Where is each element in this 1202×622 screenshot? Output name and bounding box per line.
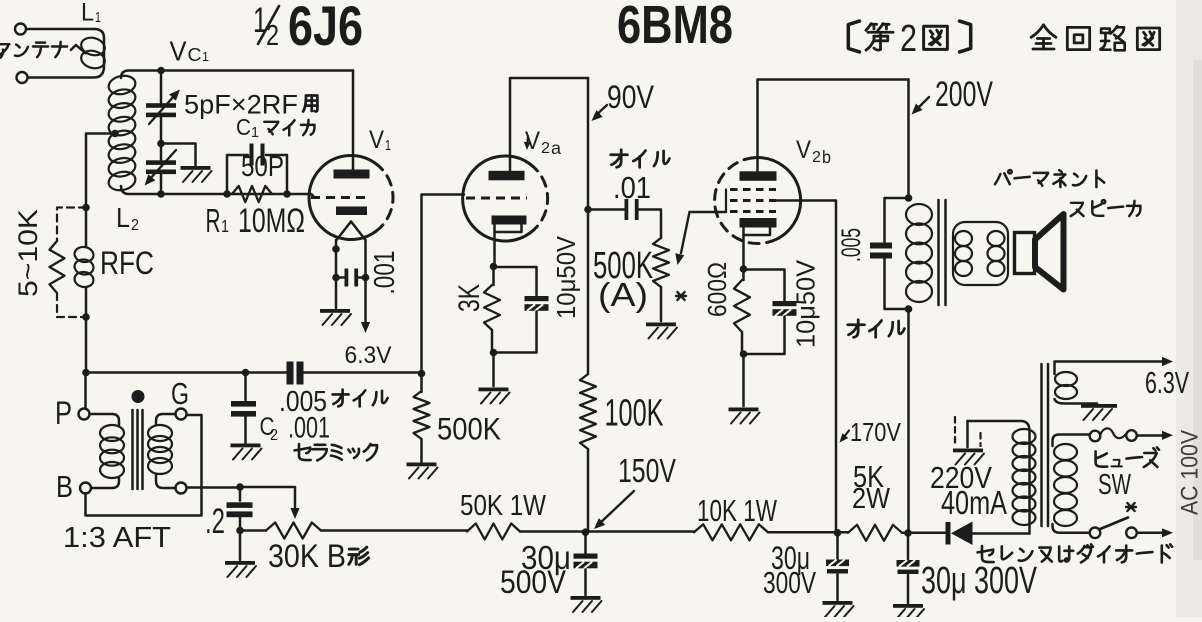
wire L2 tap to RFC [86, 134, 115, 248]
svg-text:L: L [81, 0, 94, 27]
potentiometer 500K(A) [653, 238, 669, 287]
svg-text:500K: 500K [437, 412, 501, 447]
tube V1 envelope [309, 156, 375, 240]
node RFC bottom [82, 313, 90, 321]
ground VC1 mid [181, 166, 211, 170]
svg-text:V: V [170, 36, 188, 67]
node 90V junction [584, 206, 592, 214]
svg-text:6.3V: 6.3V [345, 342, 392, 369]
node 50P left [223, 190, 231, 198]
coil AFT secondary [156, 414, 176, 425]
capacitor 10μ50V (V2b) [744, 270, 785, 301]
ground V2b cathode [729, 408, 759, 412]
svg-text:300V: 300V [763, 566, 816, 600]
ground HV (dashed link) [954, 417, 956, 446]
tube V1 cathode [336, 207, 367, 216]
arrow 30K wiper [240, 487, 295, 507]
ground V1 cathode [320, 309, 350, 313]
coil PT heater 6.3V [1055, 362, 1165, 375]
terminal P [79, 409, 90, 420]
wiper arrow 500K(A) [681, 212, 690, 253]
phasing dot AFT [132, 390, 145, 403]
svg-text:50P: 50P [241, 151, 284, 183]
svg-text:.001: .001 [288, 412, 330, 445]
node 150V [582, 528, 590, 536]
wire V2b cathode [742, 228, 745, 270]
svg-text:1: 1 [95, 10, 101, 26]
node VC1 mid [157, 140, 165, 148]
variable capacitor VC1 section 2 [160, 144, 163, 161]
svg-text:.2: .2 [205, 502, 225, 541]
svg-text:90V: 90V [607, 79, 655, 115]
svg-text:R: R [206, 203, 221, 240]
resistor R1 zigzag [232, 186, 272, 202]
wire OT to rail [907, 309, 910, 533]
wire rail 5 [902, 532, 946, 535]
svg-text:a: a [551, 138, 561, 158]
terminal B [80, 483, 91, 494]
wire tank bottom [121, 186, 313, 196]
svg-text:170V: 170V [850, 417, 901, 447]
svg-text:V: V [796, 137, 811, 164]
terminal AFT out [176, 483, 187, 494]
label アンテナへ [0, 44, 9, 57]
svg-text:5~10K: 5~10K [13, 209, 43, 297]
figure caption 〔第2図〕 [848, 21, 859, 52]
wire V2a grid [422, 195, 465, 374]
svg-text:1: 1 [202, 49, 209, 64]
svg-text:V: V [369, 127, 384, 154]
capacitor .2 [239, 487, 242, 501]
svg-text:.005: .005 [836, 228, 866, 262]
svg-text:2: 2 [900, 18, 917, 60]
svg-text:2: 2 [541, 140, 550, 157]
resistor 600Ω [742, 269, 745, 280]
coil AFT primary [90, 414, 120, 425]
ground 500K [407, 463, 437, 467]
svg-text:C: C [188, 45, 202, 66]
ground 30μ500V [571, 596, 601, 600]
wire rail 6 [973, 532, 1030, 535]
arrow 200V [916, 97, 929, 110]
wire rail 4 [768, 531, 848, 534]
ground .2 [225, 561, 255, 565]
svg-text:600Ω: 600Ω [702, 262, 732, 317]
svg-text:B: B [56, 470, 73, 504]
ground heater winding [1081, 404, 1117, 408]
resistor 5K 2W [848, 525, 902, 541]
variable capacitor VC1 section 1 [160, 71, 163, 104]
potentiometer 30K B [266, 523, 321, 539]
tube V2a envelope [463, 156, 530, 241]
svg-text:10K 1W: 10K 1W [697, 494, 777, 528]
tube V2a plate [489, 171, 525, 181]
capacitor 30μ300V #2 [907, 533, 910, 560]
diode rectifier [946, 522, 951, 545]
svg-text:6BM8: 6BM8 [617, 0, 733, 55]
resistor 10K 1W [694, 524, 768, 540]
resistor 500K grid leak [420, 374, 423, 393]
tube V1 grid (dashed) [311, 196, 368, 199]
svg-text:AC 100V: AC 100V [1177, 430, 1202, 515]
svg-text:30μ 300V: 30μ 300V [921, 560, 1038, 602]
resistor 5~10K (dashed branch) [57, 208, 86, 242]
label パーマネント [995, 170, 1012, 184]
label スピーカ [1071, 203, 1084, 216]
node V2a cathode [490, 263, 498, 271]
tube V1 plate [334, 170, 370, 179]
wire V1 plate lead [352, 71, 355, 171]
tube V2b plate [740, 171, 777, 181]
speaker [1015, 233, 1035, 274]
svg-text:G: G [171, 377, 189, 411]
arrow 90V [595, 105, 607, 117]
tube V2b grids (pentode) [730, 188, 776, 191]
svg-text:RFC: RFC [100, 245, 154, 281]
label オイル (.01) [611, 150, 628, 168]
label セレン又はダイオード [978, 546, 994, 562]
wire antenna top [26, 28, 94, 31]
capacitor 30μ500V [584, 532, 587, 553]
svg-text:6J6: 6J6 [288, 0, 363, 57]
capacitor 30μ300V #1 [836, 533, 839, 559]
wire AFT out [187, 486, 241, 489]
core PT [1040, 364, 1043, 526]
ground V2a cathode [479, 388, 509, 392]
node OT bottom [905, 305, 913, 313]
svg-text:6.3V: 6.3V [1145, 366, 1189, 400]
svg-text:P: P [55, 395, 72, 431]
node VC1 bottom [157, 190, 165, 198]
label セラミック [295, 444, 311, 460]
resistor 50K 1W [467, 524, 520, 540]
arrow 170V [843, 431, 849, 439]
node OT top [905, 194, 913, 202]
capacitor C1 50P box [227, 155, 248, 194]
coil OT secondary [953, 222, 1008, 285]
coil L2 [107, 73, 137, 96]
inductor RFC [73, 245, 94, 263]
tube V1 filament [337, 222, 366, 241]
svg-text:200V: 200V [935, 75, 994, 114]
node 200V rail [904, 529, 912, 537]
capacitor .001 (V1) [345, 269, 349, 287]
coil OT primary [906, 204, 932, 225]
svg-text:10μ50V: 10μ50V [551, 235, 581, 319]
svg-text:1: 1 [385, 138, 391, 154]
node V2b cathode bottom [740, 350, 748, 358]
svg-text:3K: 3K [453, 284, 486, 312]
svg-text:2: 2 [266, 20, 279, 52]
svg-text:1: 1 [251, 125, 259, 141]
node line left [82, 369, 90, 377]
svg-text:10μ50V: 10μ50V [791, 259, 821, 348]
wire 200V down [907, 80, 910, 199]
tube V2a grid dashes [466, 197, 527, 200]
svg-text:b: b [822, 147, 831, 167]
wire P lead [84, 373, 87, 409]
svg-text:100K: 100K [605, 393, 664, 435]
resistor 100K [587, 210, 590, 375]
wire V2b plate lead 200V [758, 80, 909, 172]
core OT [937, 200, 940, 305]
coil PT primary AC [1053, 435, 1090, 447]
node volume [236, 483, 244, 491]
wire HV top to ground [966, 421, 969, 447]
node V2b cathode [740, 265, 748, 273]
ground 30μ300V #2 [893, 604, 923, 608]
case AFT [86, 415, 202, 516]
resistor 3K [492, 267, 495, 286]
wire VC1 mid to ground [161, 144, 196, 166]
wire tank top rail [121, 71, 353, 79]
scan edge band (decor skip-label) [1176, 0, 1202, 617]
capacitor 10μ50V (V2a) [494, 267, 537, 295]
label ヒューズ [1096, 451, 1108, 466]
terminal antenna bottom [17, 72, 28, 83]
node C2 [242, 369, 250, 377]
svg-text:.001: .001 [369, 251, 401, 295]
node L2 tap [111, 130, 119, 138]
wire V2a plate lead [510, 78, 588, 171]
label ※ (switch) [1126, 503, 1136, 511]
coil PT HV winding [968, 421, 1030, 534]
wire V2b grid to pot [690, 211, 727, 214]
capacitor .01 oil [588, 208, 625, 211]
core AFT [131, 410, 134, 489]
wire V1 cathode to ground [335, 240, 338, 308]
fuse [1090, 431, 1101, 442]
coil L1 [28, 29, 105, 78]
node 50P right [283, 190, 291, 198]
wire 90V line [587, 78, 590, 210]
svg-text:40mA: 40mA [941, 485, 1008, 522]
svg-text:500V: 500V [500, 564, 567, 600]
svg-text:1: 1 [221, 216, 229, 236]
ground C2 [231, 444, 261, 448]
wire V2a cathode [493, 225, 496, 267]
label ※ (pot) [676, 292, 686, 300]
capacitor C2 .001 [244, 373, 247, 401]
svg-text:C: C [236, 114, 251, 140]
tube V2b cathode [740, 218, 777, 228]
svg-text:.01: .01 [613, 171, 651, 205]
svg-text:2W: 2W [852, 483, 890, 515]
label オイル (OT) [848, 320, 865, 338]
svg-text:(A): (A) [598, 277, 648, 314]
capacitor .005 oil (OT) [885, 198, 909, 242]
ground 30μ300V #1 [823, 601, 853, 605]
svg-text:L: L [116, 202, 130, 233]
switch SW [1090, 528, 1101, 539]
wire heater-B line [86, 371, 287, 374]
node RFC top [82, 204, 90, 212]
wire rail 2 [321, 529, 467, 532]
tube V2a cathode [492, 216, 527, 225]
arrow 150V [599, 491, 634, 524]
wire V2b screen to 170V line [776, 201, 836, 533]
tube V2b envelope [754, 158, 801, 243]
capacitor .005 oil (series) [287, 362, 294, 385]
wire V1 heater arrow 6.3V [364, 240, 367, 324]
svg-text:50K 1W: 50K 1W [460, 490, 546, 522]
svg-text:150V: 150V [618, 453, 677, 490]
terminal antenna top [15, 24, 26, 35]
ground 500K(A) [646, 323, 676, 327]
terminal G [176, 409, 187, 420]
svg-text:10MΩ: 10MΩ [238, 202, 305, 240]
node V2a cathode bottom [490, 349, 498, 357]
svg-text:2: 2 [270, 427, 278, 444]
title 全回路図 [1031, 25, 1056, 49]
wire rail left [240, 529, 266, 532]
svg-text:1:3 AFT: 1:3 AFT [63, 522, 171, 554]
node 170V rail [834, 529, 842, 537]
svg-text:30K B: 30K B [268, 538, 346, 574]
node VC1 top [157, 67, 165, 75]
node rail left end [236, 527, 244, 535]
node V2a grid junction [418, 370, 426, 378]
svg-text:2: 2 [131, 217, 139, 234]
svg-text:2: 2 [812, 149, 821, 166]
svg-text:SW: SW [1098, 469, 1131, 501]
wire rail 3 [520, 530, 694, 533]
